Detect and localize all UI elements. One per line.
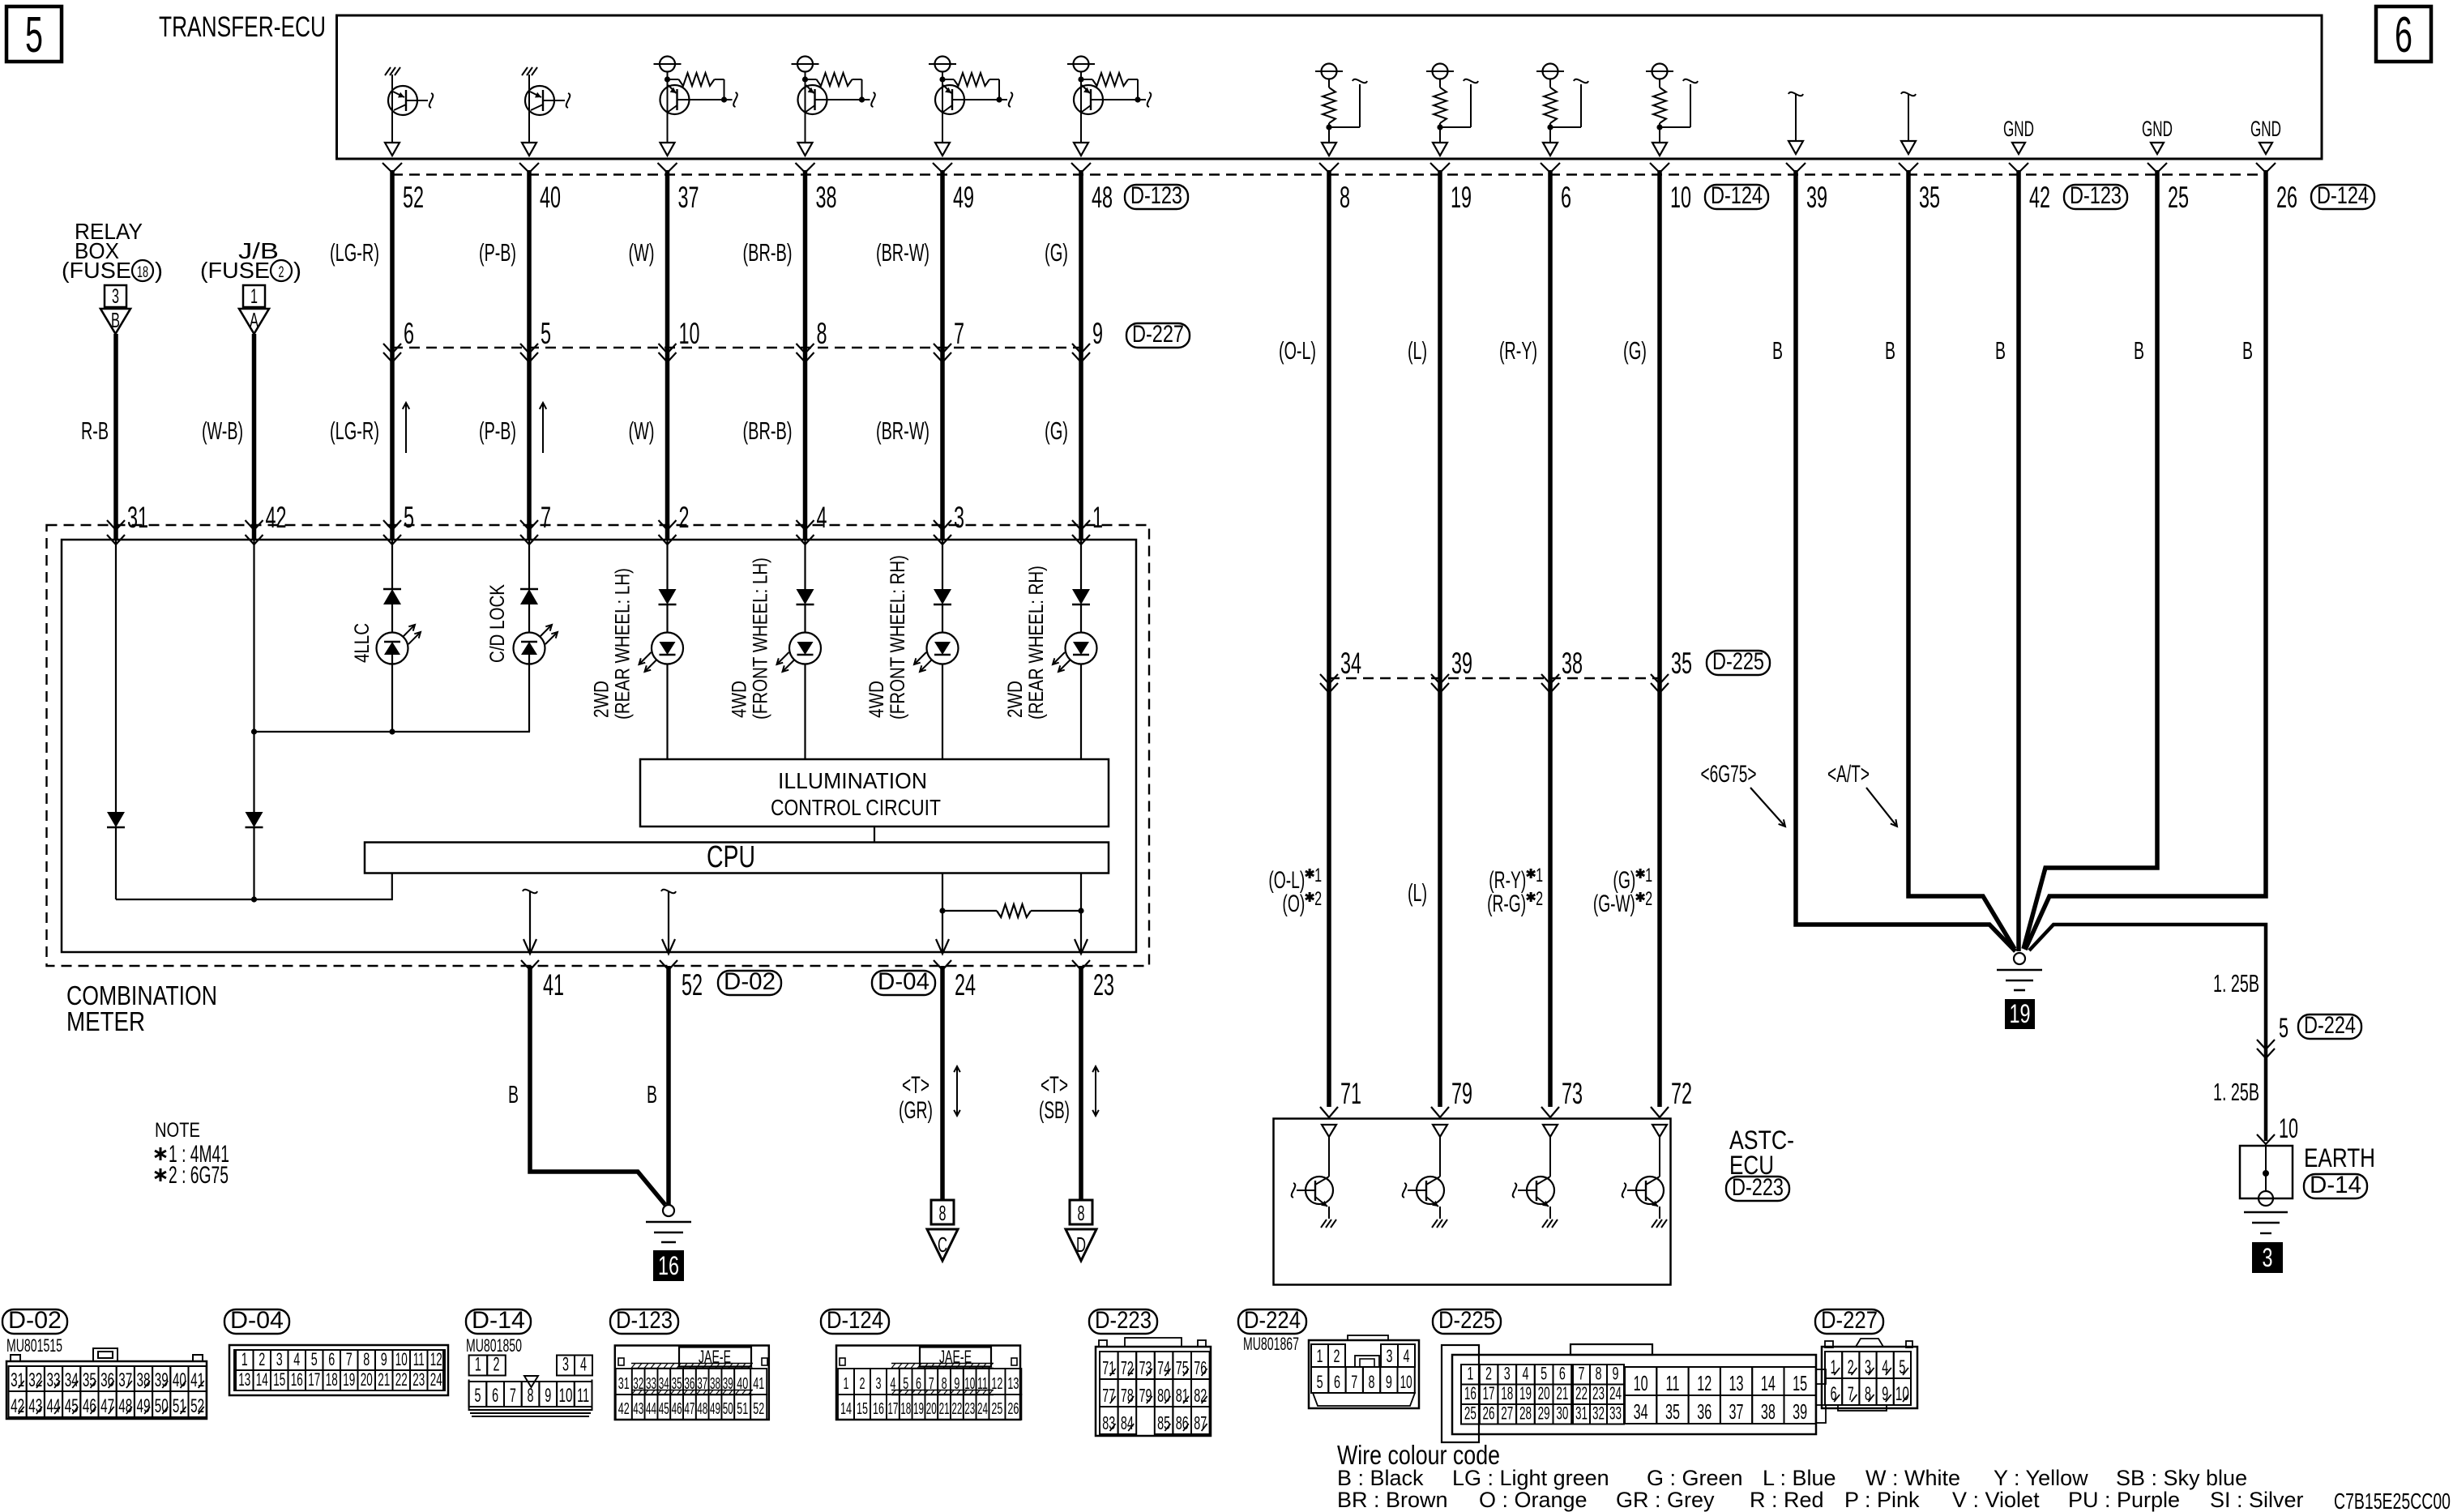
svg-text:(P-B): (P-B) <box>479 416 516 445</box>
svg-text:20: 20 <box>361 1369 373 1390</box>
svg-text:20: 20 <box>1538 1383 1550 1403</box>
wire CPU to pin 24 <box>942 873 943 953</box>
svg-text:42: 42 <box>618 1400 630 1418</box>
svg-text:26: 26 <box>1483 1403 1495 1424</box>
svg-text:(G): (G) <box>1623 336 1647 365</box>
svg-text:8: 8 <box>1078 1201 1085 1225</box>
svg-text:19: 19 <box>1451 181 1472 214</box>
meter wire 42 branch <box>253 540 254 812</box>
svg-text:2: 2 <box>494 1354 500 1376</box>
ASTC entry chevrons <box>1320 1107 1669 1117</box>
svg-text:80: 80 <box>1157 1385 1170 1406</box>
connector D-224 pinout <box>1309 1335 1419 1408</box>
svg-text:2: 2 <box>279 264 284 281</box>
svg-text:D-124: D-124 <box>1711 182 1763 209</box>
wire 6-73 (R-Y) <box>1548 170 1553 1107</box>
junction D-224 chevrons <box>2257 1040 2275 1049</box>
svg-text:24: 24 <box>955 968 976 1002</box>
svg-text:37: 37 <box>1729 1399 1744 1424</box>
wire 24 (GR) to joint C <box>940 966 945 1200</box>
svg-text:21: 21 <box>939 1400 950 1418</box>
svg-text:4WD: 4WD <box>729 681 751 718</box>
svg-text:(REAR WHEEL: RH): (REAR WHEEL: RH) <box>1025 566 1048 720</box>
svg-text:5: 5 <box>474 1385 481 1407</box>
wire W-B from J/B <box>252 334 257 540</box>
svg-text:METER: METER <box>66 1006 145 1036</box>
GND pin <box>2142 117 2173 154</box>
svg-text:(FUSE: (FUSE <box>200 258 270 283</box>
svg-text:B: B <box>1772 336 1783 365</box>
svg-text:25: 25 <box>991 1400 1002 1418</box>
svg-text:16: 16 <box>658 1251 679 1280</box>
svg-text:51: 51 <box>173 1395 186 1417</box>
diode bus to CPU <box>116 873 392 900</box>
svg-text:5: 5 <box>311 1349 318 1369</box>
ASTC pin labels 71 79 73 72 <box>1340 1077 1692 1110</box>
svg-text:71: 71 <box>1340 1077 1361 1110</box>
svg-text:26: 26 <box>2276 181 2297 214</box>
svg-text:B: B <box>2134 336 2144 365</box>
svg-text:52: 52 <box>682 968 703 1002</box>
svg-text:B: B <box>647 1080 657 1108</box>
direction arrow wire 5 <box>405 403 407 453</box>
svg-text:7: 7 <box>954 317 964 350</box>
ground 19 <box>1997 953 2042 990</box>
resistor R10 (pull-up to supply) <box>1646 64 1698 156</box>
svg-text:19: 19 <box>913 1400 924 1418</box>
svg-text:36: 36 <box>1697 1399 1712 1424</box>
svg-text:O : Orange: O : Orange <box>1479 1488 1588 1512</box>
svg-text:22: 22 <box>395 1369 408 1390</box>
svg-text:D-225: D-225 <box>1438 1307 1495 1334</box>
svg-text:38: 38 <box>1761 1399 1776 1424</box>
svg-text:18: 18 <box>1501 1383 1513 1403</box>
svg-text:B: B <box>1885 336 1895 365</box>
svg-text:25: 25 <box>2168 181 2189 214</box>
svg-text:D-123: D-123 <box>1130 182 1182 209</box>
svg-text:(W-B): (W-B) <box>202 416 243 445</box>
svg-text:4: 4 <box>1522 1364 1528 1384</box>
svg-text:41: 41 <box>753 1375 764 1393</box>
svg-text:10: 10 <box>679 317 700 350</box>
svg-text:82: 82 <box>1194 1385 1207 1406</box>
svg-text:10: 10 <box>1634 1371 1648 1395</box>
svg-text:D-224: D-224 <box>2304 1012 2356 1039</box>
svg-text:13: 13 <box>1729 1371 1744 1395</box>
svg-text:7: 7 <box>1848 1383 1854 1405</box>
svg-text:1: 1 <box>844 1375 849 1393</box>
meter entry chevrons <box>107 520 1090 545</box>
junction chevrons D-227 <box>383 344 1090 362</box>
svg-text:27: 27 <box>1501 1403 1513 1424</box>
svg-text:D-223: D-223 <box>1095 1307 1152 1334</box>
ground marker 16 <box>653 1250 684 1281</box>
note block <box>155 1119 229 1189</box>
svg-text:D-02: D-02 <box>724 968 776 995</box>
svg-text:(BR-W): (BR-W) <box>876 238 929 267</box>
connector D-123 label (bottom) <box>610 1309 678 1334</box>
svg-text:43: 43 <box>633 1400 643 1418</box>
svg-text:<6G75>: <6G75> <box>1701 761 1757 788</box>
svg-text:25: 25 <box>1464 1403 1477 1424</box>
svg-text:21: 21 <box>1556 1383 1568 1403</box>
svg-text:76: 76 <box>1194 1357 1207 1378</box>
ground marker 19 <box>2005 999 2035 1029</box>
svg-text:46: 46 <box>83 1395 96 1417</box>
svg-text:52: 52 <box>753 1400 764 1418</box>
junction D-227 dashed line <box>392 347 1081 348</box>
transistor Q8 (ASTC output) <box>1403 1125 1447 1228</box>
svg-text:22: 22 <box>951 1400 962 1418</box>
wire colour labels row2 <box>330 416 1068 445</box>
svg-text:15: 15 <box>857 1400 868 1418</box>
svg-text:22: 22 <box>1575 1383 1588 1403</box>
svg-text:6: 6 <box>492 1385 498 1407</box>
svg-text:51: 51 <box>737 1400 748 1418</box>
CPU box <box>365 843 1109 873</box>
svg-text:2: 2 <box>679 501 690 534</box>
connector D-123 label (right) <box>2064 185 2127 209</box>
connector D-224 label (bottom) <box>1238 1309 1306 1334</box>
svg-text:2: 2 <box>259 1349 265 1369</box>
svg-text:37: 37 <box>678 181 699 214</box>
svg-text:3: 3 <box>1387 1346 1393 1366</box>
svg-text:D-14: D-14 <box>472 1307 525 1334</box>
resistor R8 (pull-up to supply) <box>1426 64 1478 156</box>
wire 52-5 (LG-R) <box>390 170 395 540</box>
svg-text:(G): (G) <box>1045 416 1068 445</box>
svg-text:8: 8 <box>1340 181 1350 214</box>
svg-text:1: 1 <box>475 1354 481 1376</box>
svg-text:44: 44 <box>646 1400 656 1418</box>
wire 10-72 (G) <box>1657 170 1662 1107</box>
svg-text:4: 4 <box>817 501 827 534</box>
svg-text:14: 14 <box>840 1400 852 1418</box>
wire CPU to pin 23 <box>1080 873 1082 953</box>
transistor Q2 (PNP, chassis ground) <box>522 67 570 156</box>
svg-text:4: 4 <box>580 1354 587 1376</box>
svg-text:(BR-B): (BR-B) <box>743 238 793 267</box>
svg-text:32: 32 <box>1592 1403 1605 1424</box>
svg-text:18: 18 <box>326 1369 338 1390</box>
svg-text:D-124: D-124 <box>2317 182 2369 209</box>
updown arrow GR <box>956 1066 958 1116</box>
svg-text:(R-G): (R-G) <box>1487 891 1526 917</box>
svg-text:6: 6 <box>1561 181 1571 214</box>
junction pin labels 6 5 10 8 7 9 <box>404 317 1103 350</box>
svg-text:2: 2 <box>1645 888 1652 910</box>
svg-text:72: 72 <box>1121 1357 1134 1378</box>
connector D-223 pinout <box>1096 1338 1211 1436</box>
svg-text:<A/T>: <A/T> <box>1827 761 1870 788</box>
svg-text:8: 8 <box>939 1201 947 1225</box>
svg-text:4: 4 <box>1882 1356 1888 1378</box>
transistor Q4 with pull-up resistor R4 <box>792 57 875 156</box>
transistor Q5 with pull-up resistor R5 <box>929 57 1012 156</box>
svg-text:1: 1 <box>1536 865 1543 886</box>
svg-text:7: 7 <box>510 1385 516 1407</box>
svg-text:EARTH: EARTH <box>2304 1143 2375 1172</box>
connector D-02 pinout <box>6 1348 207 1419</box>
svg-text:10: 10 <box>1400 1372 1412 1392</box>
svg-text:D-123: D-123 <box>616 1307 673 1334</box>
svg-text:6: 6 <box>328 1349 335 1369</box>
svg-text:14: 14 <box>1761 1371 1776 1395</box>
RELAY BOX (FUSE 18) label <box>62 219 163 283</box>
connector D-124 label (bottom) <box>821 1309 889 1334</box>
indicator LED 2WD (REAR WHEEL: RH) <box>1053 540 1097 759</box>
svg-text:1: 1 <box>1092 501 1103 534</box>
transistor Q9 (ASTC output) <box>1513 1125 1558 1228</box>
svg-text:GND: GND <box>2003 117 2034 141</box>
svg-text:SB : Sky blue: SB : Sky blue <box>2116 1466 2247 1490</box>
svg-text:C: C <box>938 1232 947 1257</box>
diode D1 <box>107 812 125 827</box>
svg-text:(L): (L) <box>1408 336 1427 365</box>
svg-text:42: 42 <box>11 1395 24 1417</box>
svg-text:19: 19 <box>343 1369 355 1390</box>
svg-text:(W): (W) <box>629 416 655 445</box>
svg-text:GR : Grey: GR : Grey <box>1616 1488 1715 1512</box>
svg-text:(G-W): (G-W) <box>1593 891 1635 917</box>
svg-text:4LLC: 4LLC <box>351 623 374 663</box>
svg-text:3: 3 <box>954 501 964 534</box>
svg-text:ILLUMINATION: ILLUMINATION <box>778 768 927 793</box>
svg-text:(P-B): (P-B) <box>479 238 516 267</box>
svg-text:2: 2 <box>1848 1356 1854 1378</box>
svg-text:11: 11 <box>577 1385 589 1407</box>
wire colour labels row1 <box>330 238 1068 267</box>
meter pin labels 31 42 5 7 2 4 3 1 <box>127 501 1103 534</box>
svg-text:2WD: 2WD <box>1004 681 1027 718</box>
svg-text:42: 42 <box>266 501 287 534</box>
svg-text:34: 34 <box>65 1369 79 1391</box>
svg-text:33: 33 <box>1609 1403 1622 1424</box>
svg-text:45: 45 <box>65 1395 79 1417</box>
svg-text:B: B <box>2242 336 2253 365</box>
svg-text:SI : Silver: SI : Silver <box>2210 1488 2304 1512</box>
connector D-14 pinout <box>469 1354 592 1417</box>
svg-text:50: 50 <box>155 1395 169 1417</box>
svg-text:8: 8 <box>817 317 827 350</box>
wire 49-3 (BR-W) <box>940 170 945 540</box>
junction D-225 dashed line <box>1329 677 1660 679</box>
svg-text:41: 41 <box>543 968 564 1002</box>
svg-text:47: 47 <box>100 1395 114 1417</box>
svg-text:79: 79 <box>1139 1385 1152 1406</box>
svg-text:4: 4 <box>1404 1346 1410 1366</box>
transistor Q10 (ASTC output) <box>1622 1125 1667 1228</box>
EARTH body D-14 <box>2240 1146 2293 1233</box>
svg-text:41: 41 <box>190 1369 204 1391</box>
svg-text:24: 24 <box>430 1369 442 1390</box>
wire 40-7 (P-B) <box>527 170 532 540</box>
wire 42 (B) to ground 19 <box>2016 170 2021 951</box>
svg-text:NOTE: NOTE <box>155 1119 200 1142</box>
internal wire stub <box>1788 92 1803 154</box>
resistor R11 between 24 and 23 <box>939 904 1083 917</box>
svg-text:28: 28 <box>1519 1403 1532 1424</box>
svg-text:D-225: D-225 <box>1712 648 1764 675</box>
svg-text:3: 3 <box>562 1354 569 1376</box>
svg-text:18: 18 <box>900 1400 911 1418</box>
svg-text:37: 37 <box>118 1369 132 1391</box>
svg-text:D-124: D-124 <box>827 1307 883 1334</box>
svg-text:10: 10 <box>558 1385 572 1407</box>
connector D-225 pinout <box>1442 1344 1826 1442</box>
wire 41 stub with curl <box>523 890 537 894</box>
wire colour B labels right <box>1772 336 2253 365</box>
connector D-225 label (bottom) <box>1433 1309 1501 1334</box>
svg-text:(BR-B): (BR-B) <box>743 416 793 445</box>
svg-text:5: 5 <box>25 7 43 63</box>
svg-text:49: 49 <box>137 1395 151 1417</box>
ECU connector chevrons <box>382 163 2276 173</box>
ILLUMINATION CONTROL CIRCUIT box <box>640 759 1109 826</box>
svg-text:85: 85 <box>1157 1412 1170 1433</box>
svg-text:12: 12 <box>1697 1371 1712 1395</box>
svg-text:26: 26 <box>1007 1400 1019 1418</box>
svg-text:R : Red: R : Red <box>1750 1488 1824 1512</box>
svg-text:17: 17 <box>887 1400 898 1418</box>
connector D-02 label (bottom) <box>2 1309 67 1334</box>
svg-text:11: 11 <box>413 1349 425 1369</box>
svg-text:1. 25B: 1. 25B <box>2213 1078 2259 1106</box>
svg-text:(L): (L) <box>1408 878 1427 907</box>
svg-text:(G): (G) <box>1045 238 1068 267</box>
svg-text:D-02: D-02 <box>8 1307 62 1334</box>
svg-text:D-123: D-123 <box>2070 182 2122 209</box>
page marker 5 <box>6 6 62 62</box>
svg-text:20: 20 <box>926 1400 937 1418</box>
svg-text:MU801515: MU801515 <box>6 1335 62 1356</box>
svg-text:47: 47 <box>684 1400 694 1418</box>
ground 16 <box>646 1205 691 1242</box>
svg-text:(REAR WHEEL: LH): (REAR WHEEL: LH) <box>612 568 635 720</box>
svg-text:35: 35 <box>1919 181 1940 214</box>
svg-text:C/D LOCK: C/D LOCK <box>486 584 509 663</box>
connector D-225 label <box>1707 651 1770 675</box>
wire colour labels right <box>1279 336 1647 365</box>
updown arrow SB <box>1095 1066 1096 1116</box>
svg-text:CPU: CPU <box>707 840 755 874</box>
svg-text:3: 3 <box>876 1375 882 1393</box>
transistor Q3 with pull-up resistor R3 <box>654 57 737 156</box>
svg-text:(FUSE: (FUSE <box>62 258 131 283</box>
svg-text:D-227: D-227 <box>1821 1307 1878 1334</box>
joint connector 8 C <box>927 1200 958 1261</box>
svg-text:(R-Y): (R-Y) <box>1499 336 1537 365</box>
svg-text:6: 6 <box>1831 1383 1837 1405</box>
svg-text:50: 50 <box>723 1400 733 1418</box>
svg-text:(FRONT WHEEL: LH): (FRONT WHEEL: LH) <box>750 557 772 720</box>
wire 25 (B) to ground 19 <box>2024 170 2157 949</box>
resistor R9 (pull-up to supply) <box>1536 64 1588 156</box>
fuse 1 terminal <box>239 285 269 334</box>
svg-text:35: 35 <box>1665 1399 1680 1424</box>
svg-text:29: 29 <box>1538 1403 1550 1424</box>
svg-text:B : Black: B : Black <box>1337 1466 1424 1490</box>
TRANSFER-ECU box U1 <box>337 15 2323 159</box>
svg-text:17: 17 <box>308 1369 320 1390</box>
fuse 3 terminal <box>100 285 130 334</box>
svg-text:12: 12 <box>430 1349 442 1369</box>
connector D-227 pinout <box>1822 1339 1917 1411</box>
svg-text:<T>: <T> <box>902 1072 929 1099</box>
svg-text:21: 21 <box>378 1369 390 1390</box>
svg-text:1: 1 <box>1645 865 1652 886</box>
svg-text:D-223: D-223 <box>1732 1174 1784 1201</box>
svg-text:B: B <box>508 1080 519 1108</box>
svg-text:31: 31 <box>11 1369 24 1391</box>
svg-text:16: 16 <box>291 1369 303 1390</box>
svg-text:18: 18 <box>137 264 148 281</box>
svg-text:36: 36 <box>100 1369 114 1391</box>
svg-text:1: 1 <box>1314 865 1322 886</box>
wire 37-2 (W) <box>665 170 670 540</box>
svg-text:9: 9 <box>1613 1364 1619 1384</box>
svg-text:R-B: R-B <box>81 416 109 445</box>
wire 41 (B) to ground <box>530 966 665 1205</box>
svg-text:Y : Yellow: Y : Yellow <box>1994 1466 2088 1490</box>
svg-text:): ) <box>293 258 301 283</box>
svg-text:TRANSFER-ECU: TRANSFER-ECU <box>159 11 326 43</box>
svg-text:7: 7 <box>1579 1364 1585 1384</box>
svg-text:8: 8 <box>1369 1372 1375 1392</box>
transistor Q7 (ASTC output) <box>1292 1125 1336 1228</box>
svg-text:G : Green: G : Green <box>1647 1466 1743 1490</box>
svg-text:5: 5 <box>1317 1372 1323 1392</box>
svg-text:(W): (W) <box>629 238 655 267</box>
svg-text:15: 15 <box>273 1369 285 1390</box>
J/B (FUSE 2) label <box>200 238 301 283</box>
svg-text:23: 23 <box>964 1400 975 1418</box>
svg-text:PU : Purple: PU : Purple <box>2068 1488 2180 1512</box>
wire 35 (B) to ground 19 <box>1908 170 2015 949</box>
svg-text:5: 5 <box>2279 1013 2288 1044</box>
connector D-04 pinout <box>229 1345 448 1395</box>
combination meter inner box <box>62 540 1136 952</box>
svg-text:39: 39 <box>1451 647 1472 680</box>
direction arrow wire 7 <box>542 403 544 453</box>
svg-text:(FRONT WHEEL: RH): (FRONT WHEEL: RH) <box>887 555 909 720</box>
svg-text:16: 16 <box>1464 1383 1477 1403</box>
svg-text:8: 8 <box>1865 1383 1871 1405</box>
svg-text:74: 74 <box>1157 1357 1170 1378</box>
svg-text:23: 23 <box>1093 968 1114 1002</box>
svg-text:15: 15 <box>1793 1371 1807 1395</box>
svg-text:10: 10 <box>395 1349 408 1369</box>
svg-text:78: 78 <box>1121 1385 1134 1406</box>
transistor Q6 with pull-up resistor R6 <box>1067 57 1151 156</box>
svg-text:24: 24 <box>977 1400 988 1418</box>
svg-text:1: 1 <box>250 285 258 308</box>
svg-text:GND: GND <box>2250 117 2281 141</box>
svg-text:(BR-W): (BR-W) <box>876 416 929 445</box>
GND pin <box>2003 117 2034 154</box>
svg-text:GND: GND <box>2142 117 2173 141</box>
connector D-223 label (bottom) <box>1089 1309 1157 1334</box>
svg-text:48: 48 <box>1092 181 1113 214</box>
svg-text:1. 25B: 1. 25B <box>2213 969 2259 997</box>
wire 1.25B to earth <box>2029 925 2266 1141</box>
connector D-227 label <box>1126 323 1190 348</box>
svg-text:75: 75 <box>1176 1357 1189 1378</box>
svg-text:2 : 6G75: 2 : 6G75 <box>169 1162 229 1189</box>
svg-text:7: 7 <box>346 1349 353 1369</box>
svg-text:<T>: <T> <box>1041 1072 1068 1099</box>
svg-text:2: 2 <box>1485 1364 1492 1384</box>
